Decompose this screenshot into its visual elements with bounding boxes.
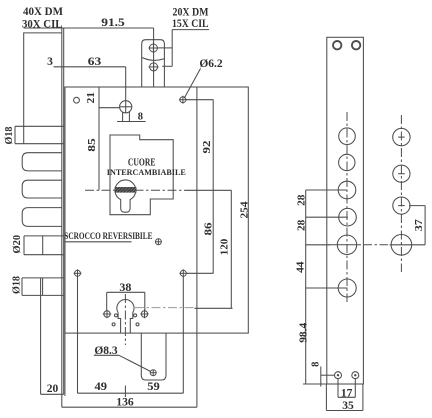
- svg-text:8: 8: [138, 112, 143, 123]
- svg-text:63: 63: [88, 56, 102, 68]
- svg-text:49: 49: [95, 381, 108, 393]
- svg-text:20X DM: 20X DM: [173, 7, 209, 19]
- svg-text:Ø6.2: Ø6.2: [199, 58, 223, 70]
- svg-text:8: 8: [310, 362, 321, 367]
- svg-text:Ø8.3: Ø8.3: [94, 345, 118, 357]
- svg-text:17: 17: [341, 388, 353, 400]
- svg-text:40X DM: 40X DM: [23, 6, 63, 18]
- svg-text:Ø18: Ø18: [11, 276, 23, 294]
- svg-text:37: 37: [414, 219, 425, 231]
- svg-text:98.4: 98.4: [298, 322, 309, 343]
- svg-text:20: 20: [47, 383, 59, 395]
- svg-text:85: 85: [86, 138, 98, 152]
- svg-text:44: 44: [295, 261, 306, 273]
- svg-text:SCROCCO REVERSIBILE: SCROCCO REVERSIBILE: [64, 231, 152, 242]
- svg-text:Ø20: Ø20: [11, 234, 23, 253]
- svg-text:136: 136: [116, 396, 134, 408]
- svg-text:59: 59: [147, 381, 160, 393]
- svg-text:3: 3: [47, 56, 53, 68]
- svg-text:30X CIL: 30X CIL: [22, 19, 63, 31]
- svg-text:28: 28: [296, 220, 307, 231]
- svg-text:254: 254: [238, 201, 250, 219]
- svg-text:86: 86: [202, 222, 214, 236]
- svg-text:28: 28: [296, 195, 307, 206]
- svg-text:21: 21: [86, 92, 97, 104]
- svg-text:35: 35: [342, 400, 354, 412]
- svg-text:Ø18: Ø18: [3, 126, 15, 144]
- svg-text:INTERCAMBIABILE: INTERCAMBIABILE: [107, 167, 186, 177]
- svg-text:38: 38: [119, 282, 131, 294]
- svg-text:91.5: 91.5: [101, 17, 125, 29]
- svg-text:120: 120: [219, 238, 231, 255]
- svg-text:92: 92: [201, 140, 213, 154]
- svg-text:15X CIL: 15X CIL: [172, 18, 209, 30]
